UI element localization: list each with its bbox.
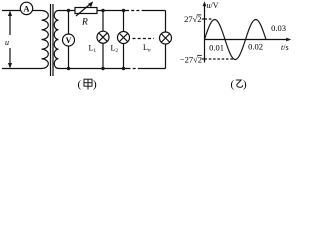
lamp L1 branch wire bottom [102, 43, 104, 68]
lamp L1 [97, 31, 109, 43]
wire top dashed section [126, 10, 145, 12]
label (yi) figure B [231, 79, 248, 91]
tick 27sqrt2 [202, 18, 205, 20]
transformer T1 secondary coil [54, 11, 58, 69]
svg-text:u: u [5, 38, 9, 47]
svg-text:A: A [23, 3, 30, 13]
graph x-axis [205, 39, 290, 41]
lamp L1 branch wire top [102, 11, 104, 32]
wire bottom-left rail [2, 68, 42, 70]
dashed ellipsis wire between L2 and Ln [133, 38, 155, 40]
svg-text:(: ( [231, 79, 235, 91]
resistor R arrow [76, 4, 90, 16]
sine curve u(t) [205, 20, 267, 60]
wire bottom dashed section [128, 68, 142, 70]
dashed line to trough [205, 58, 234, 60]
wire top right section [145, 10, 166, 12]
lamp L2 branch wire bottom [123, 44, 125, 69]
svg-text:u/V: u/V [207, 1, 219, 10]
svg-text:t/s: t/s [281, 43, 289, 52]
transformer core line left [50, 4, 52, 76]
voltmeter V1 circle [63, 34, 75, 46]
svg-text:): ) [93, 79, 97, 91]
svg-text:−27√2: −27√2 [180, 55, 202, 65]
svg-text:0.03: 0.03 [271, 23, 286, 33]
junction dot top V [67, 9, 70, 12]
svg-text:(: ( [78, 79, 82, 91]
wire top-left rail [2, 10, 21, 12]
voltmeter branch wire bottom [68, 46, 70, 69]
svg-text:0.02: 0.02 [248, 42, 263, 52]
source arrow u (double-headed) [8, 11, 12, 69]
resistor R box [75, 8, 97, 14]
voltmeter branch wire top [68, 11, 70, 35]
svg-text:V: V [66, 36, 72, 45]
wire bottom right section [141, 68, 166, 70]
lamp L2 [118, 32, 130, 44]
svg-text:27√2: 27√2 [184, 14, 201, 24]
svg-text:0.01: 0.01 [209, 43, 224, 53]
ammeter A1 circle [20, 2, 32, 14]
junction dot bottom L1 [101, 67, 104, 70]
transformer T1 primary coil [42, 11, 49, 69]
junction dot top L2 [122, 9, 125, 12]
y-axis arrowhead [203, 1, 207, 6]
tick -27sqrt2 [202, 58, 205, 60]
label (jia) figure A [78, 79, 98, 91]
wire secondary bottom rail [59, 68, 128, 70]
x-axis arrowhead [286, 38, 291, 42]
junction dot bottom L2 [122, 67, 125, 70]
junction dot bottom V [67, 67, 70, 70]
lamp Ln branch wire top [165, 11, 167, 33]
wire resistor to lamps [97, 10, 126, 12]
dashed line to peak [205, 18, 213, 20]
lamp Ln branch wire bottom [165, 44, 167, 69]
lamp Ln [160, 32, 172, 44]
svg-text:): ) [243, 79, 247, 91]
svg-text:R: R [81, 18, 88, 28]
junction dot top L1 [101, 9, 104, 12]
graph y-axis [202, 3, 290, 63]
wire secondary top to resistor [59, 10, 76, 12]
transformer core line right [52, 4, 54, 76]
wire ammeter to primary coil [32, 10, 41, 12]
lamp L2 branch wire top [123, 11, 125, 32]
